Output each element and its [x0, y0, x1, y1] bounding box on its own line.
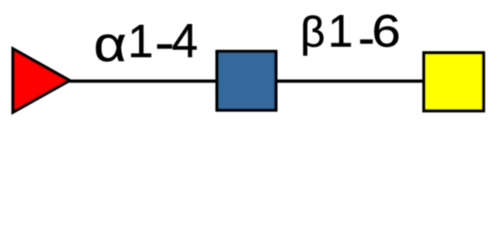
wire: blue square to yellow square (b1-6 linkage): [276, 79, 425, 82]
triangle (red fucose symbol): [13, 49, 70, 112]
yellow square (GalNAc symbol): [424, 53, 484, 111]
svg-text:α: α: [94, 18, 127, 72]
blue square (GlcNAc symbol): [217, 51, 276, 110]
svg-text:1: 1: [328, 6, 353, 57]
svg-text:4: 4: [172, 14, 198, 67]
svg-text:1: 1: [128, 15, 154, 67]
svg-text:β: β: [300, 8, 325, 56]
svg-text:6: 6: [372, 6, 401, 57]
wire: triangle to blue square (a1-4 linkage): [62, 79, 217, 82]
